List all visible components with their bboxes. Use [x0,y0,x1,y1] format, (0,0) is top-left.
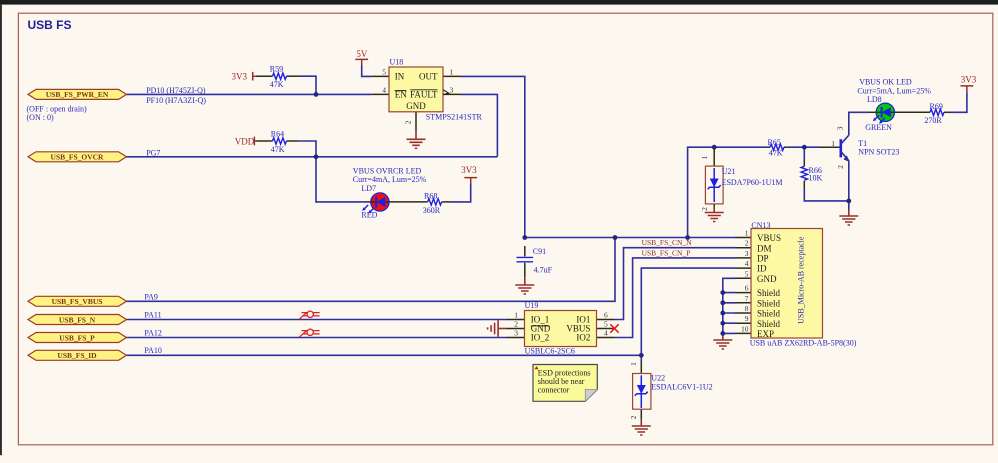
svg-text:RED: RED [361,211,377,220]
svg-text:Shield: Shield [757,319,781,329]
svg-text:connector: connector [538,386,570,395]
svg-text:Curr=4mA, Lum=25%: Curr=4mA, Lum=25% [353,175,427,184]
svg-text:(OFF : open drain): (OFF : open drain) [27,104,88,113]
svg-text:PA11: PA11 [144,311,161,320]
svg-text:270R: 270R [924,116,942,125]
svg-text:(ON : 0): (ON : 0) [27,113,54,122]
svg-text:VDD: VDD [235,136,255,146]
svg-text:3: 3 [514,329,518,338]
svg-text:47K: 47K [769,148,783,157]
svg-text:should be near: should be near [538,377,585,386]
svg-text:10: 10 [741,324,749,333]
svg-text:FAULT: FAULT [410,90,438,100]
svg-text:U18: U18 [390,58,404,67]
svg-text:LD7: LD7 [361,184,376,193]
svg-text:2: 2 [514,320,518,329]
svg-text:USB_FS_N: USB_FS_N [59,315,96,324]
svg-text:7: 7 [745,294,749,303]
svg-text:R64: R64 [271,130,284,139]
svg-text:4: 4 [604,329,608,338]
svg-text:USB_Micro-AB receptacle: USB_Micro-AB receptacle [796,236,805,324]
svg-text:3V3: 3V3 [961,75,977,85]
svg-text:6: 6 [604,311,608,320]
svg-text:USB uAB ZX62RD-AB-5P8(30): USB uAB ZX62RD-AB-5P8(30) [750,338,857,347]
svg-text:GND: GND [757,274,777,284]
svg-text:PG7: PG7 [146,148,160,157]
svg-text:ESDA7P60-1U1M: ESDA7P60-1U1M [722,178,783,187]
svg-text:ESDALC6V1-1U2: ESDALC6V1-1U2 [651,382,712,391]
svg-text:VBUS OK LED: VBUS OK LED [859,77,912,86]
svg-text:3: 3 [836,126,845,130]
svg-text:C91: C91 [533,247,546,256]
svg-text:U19: U19 [525,301,539,310]
svg-text:DP: DP [757,254,769,264]
svg-text:3: 3 [450,85,454,94]
svg-text:3: 3 [745,249,749,258]
svg-text:4.7uF: 4.7uF [534,265,553,274]
svg-text:VBUS: VBUS [757,233,781,243]
svg-text:R65: R65 [768,138,781,147]
svg-text:GND: GND [406,101,426,111]
svg-text:R59: R59 [270,65,283,74]
svg-text:USB_FS_ID: USB_FS_ID [57,351,97,360]
svg-text:IO2: IO2 [576,333,590,343]
svg-text:1: 1 [700,156,709,160]
svg-text:GREEN: GREEN [865,123,892,132]
svg-text:IN: IN [395,72,405,82]
svg-text:USB_FS_VBUS: USB_FS_VBUS [52,297,103,306]
svg-text:CN13: CN13 [751,221,770,230]
svg-text:IO_2: IO_2 [531,333,550,343]
svg-text:5: 5 [382,67,386,76]
svg-text:USB_FS_OVCR: USB_FS_OVCR [51,153,105,162]
svg-text:2: 2 [403,120,412,124]
svg-text:3V3: 3V3 [461,165,477,175]
svg-text:EXP: EXP [757,329,774,339]
svg-text:5: 5 [604,320,608,329]
svg-text:10K: 10K [809,174,823,183]
svg-text:ESD protections: ESD protections [538,368,591,377]
svg-text:U21: U21 [722,167,736,176]
svg-text:1: 1 [450,67,454,76]
svg-text:2: 2 [836,165,845,169]
svg-text:PA12: PA12 [144,329,162,338]
svg-text:R68: R68 [424,191,437,200]
svg-text:USB_FS_PWR_EN: USB_FS_PWR_EN [46,90,109,99]
svg-text:360R: 360R [423,206,441,215]
svg-text:OUT: OUT [419,72,438,82]
svg-text:PD10 (H745ZI-Q): PD10 (H745ZI-Q) [146,86,206,95]
svg-text:Shield: Shield [757,309,781,319]
svg-text:USBLC6-2SC6: USBLC6-2SC6 [525,346,575,355]
svg-text:PF10 (H7A3ZI-Q): PF10 (H7A3ZI-Q) [146,96,206,105]
svg-text:USB_FS_CN_N: USB_FS_CN_N [642,238,693,247]
svg-text:NPN SOT23: NPN SOT23 [858,147,899,156]
svg-text:2: 2 [745,239,749,248]
svg-text:Shield: Shield [757,298,781,308]
svg-text:USB FS: USB FS [28,18,72,32]
svg-text:STMPS2141STR: STMPS2141STR [426,113,483,122]
svg-text:Shield: Shield [757,288,781,298]
svg-text:R69: R69 [930,102,943,111]
svg-text:8: 8 [745,304,749,313]
svg-text:USB_FS_P: USB_FS_P [59,333,95,342]
svg-text:5: 5 [745,269,749,278]
svg-text:1: 1 [514,311,518,320]
svg-text:Curr=5mA, Lum=25%: Curr=5mA, Lum=25% [857,87,931,96]
svg-text:ID: ID [757,264,767,274]
svg-text:47K: 47K [271,145,285,154]
svg-text:47K: 47K [270,80,284,89]
svg-text:9: 9 [745,314,749,323]
svg-text:PA9: PA9 [144,293,158,302]
svg-text:DM: DM [757,243,772,253]
svg-text:USB_FS_CN_P: USB_FS_CN_P [642,248,691,257]
svg-text:1: 1 [831,139,835,148]
svg-text:U22: U22 [651,373,665,382]
svg-text:4: 4 [382,85,386,94]
svg-text:2: 2 [700,207,709,211]
svg-text:PA10: PA10 [144,346,162,355]
svg-text:3V3: 3V3 [232,72,248,82]
svg-text:LD8: LD8 [867,95,882,104]
svg-text:5V: 5V [356,49,368,59]
svg-text:4: 4 [745,259,749,268]
svg-text:2: 2 [629,415,638,419]
svg-text:6: 6 [745,284,749,293]
svg-text:EN: EN [395,90,407,100]
svg-text:1: 1 [629,362,638,366]
svg-text:1: 1 [745,229,749,238]
